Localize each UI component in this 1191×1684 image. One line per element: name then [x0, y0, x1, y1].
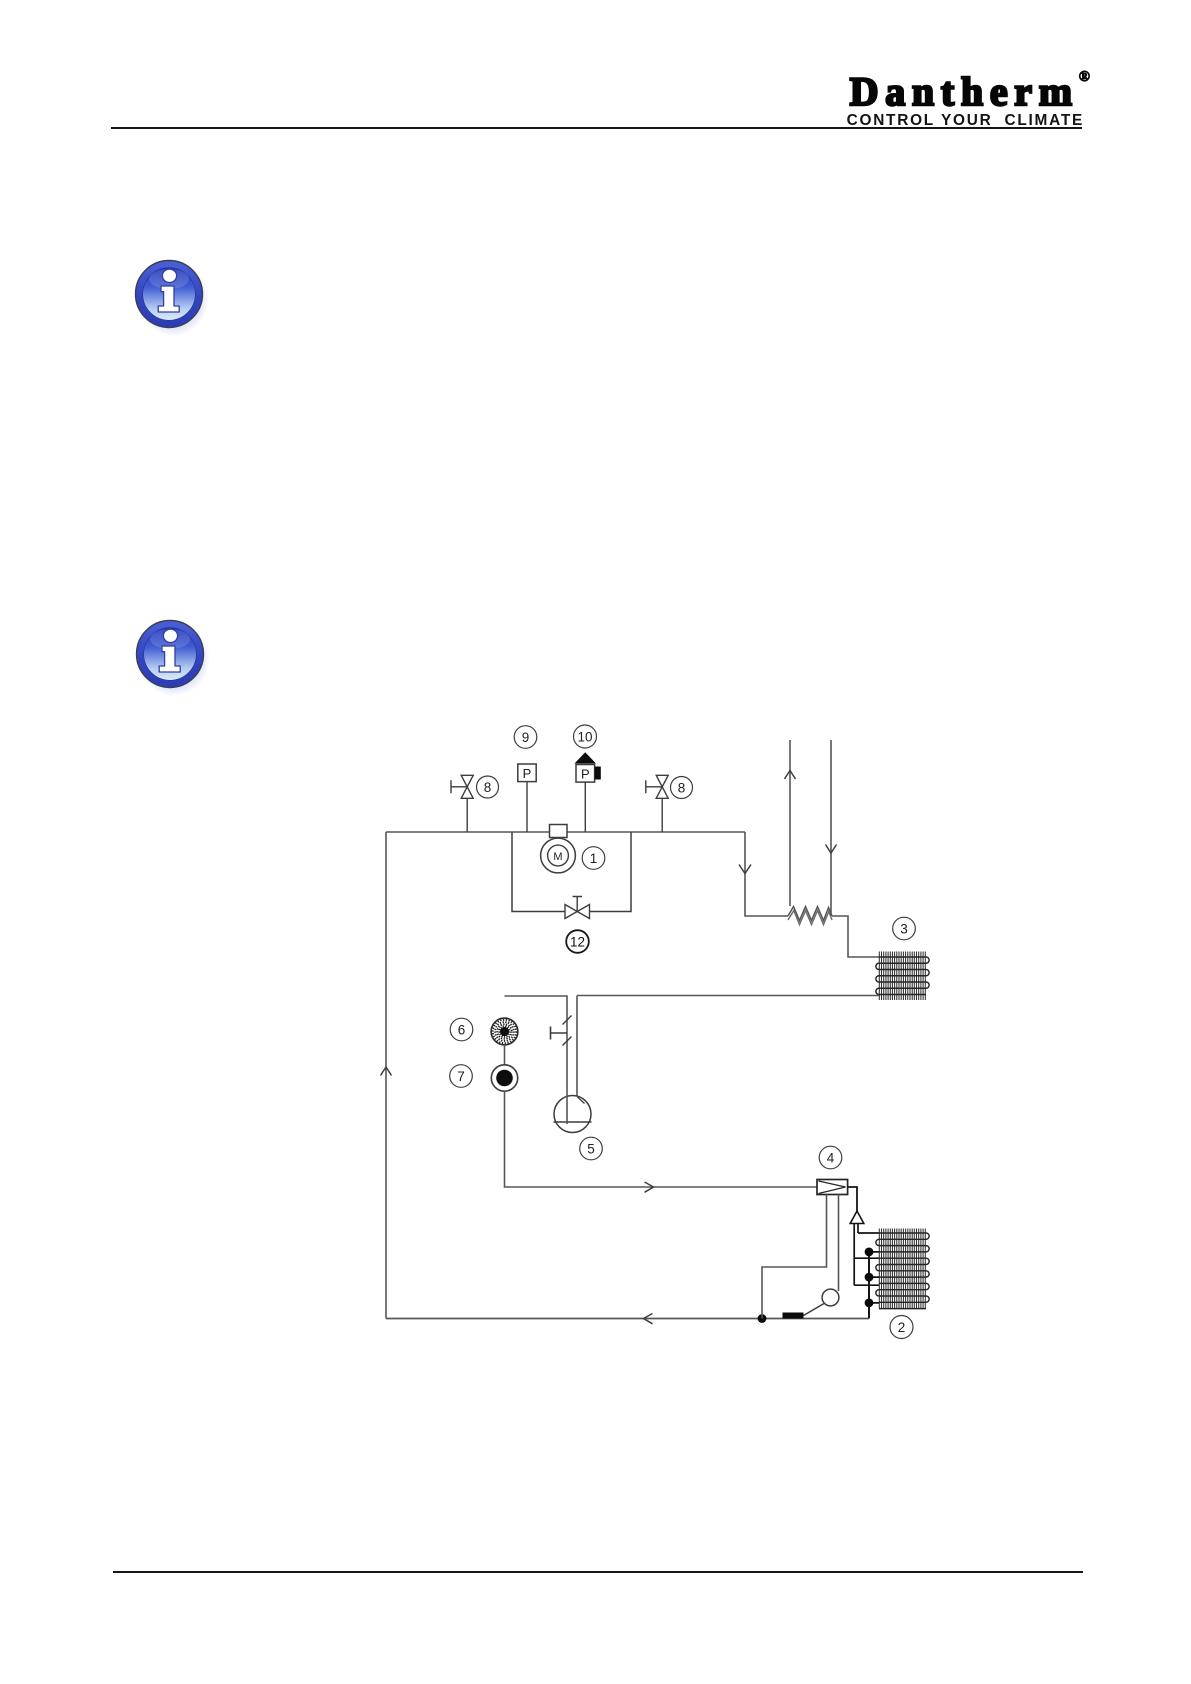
svg-text:9: 9: [522, 730, 530, 745]
label circle 1: [582, 847, 605, 870]
junction dot 2: [865, 1273, 874, 1282]
riser return line: [830, 740, 832, 915]
wire suction line bottom: [386, 1318, 869, 1320]
compressor body 1: [541, 838, 576, 873]
svg-text:10: 10: [577, 729, 592, 744]
sensing bulb: [822, 1289, 839, 1306]
svg-text:P: P: [581, 766, 590, 781]
wire left return riser: [385, 832, 387, 1319]
svg-text:5: 5: [587, 1141, 595, 1156]
wire receiver inlet: [576, 996, 578, 1097]
junction dot suction/equalizer: [758, 1314, 767, 1323]
label circle 8 left: [477, 776, 499, 798]
external equalizer line: [762, 1195, 827, 1319]
junction dot 1: [865, 1248, 874, 1257]
sensing bulb capillary: [838, 1195, 840, 1292]
distributor feeds to evaporator: [854, 1233, 879, 1285]
svg-text:4: 4: [827, 1150, 835, 1165]
svg-text:8: 8: [484, 780, 492, 795]
service valve on dip tube: [551, 1016, 572, 1046]
pressure gauge 9: [518, 764, 536, 832]
label circle 10: [574, 725, 597, 748]
svg-text:3: 3: [900, 921, 908, 936]
label circle 12: [566, 930, 589, 953]
service valve 8 left (bowtie): [451, 775, 473, 832]
flow arrow right on liquid line: [645, 1182, 654, 1192]
vibration absorber zigzag: [788, 907, 832, 921]
wire zigzag to condenser coil: [832, 916, 879, 957]
svg-text:1: 1: [590, 851, 598, 866]
label circle 6: [450, 1018, 473, 1041]
compressor terminal box: [550, 825, 568, 838]
bulb strap diagonal: [804, 1304, 825, 1316]
wire TXV outlet to distributor: [848, 1187, 857, 1212]
label circle 7: [450, 1065, 473, 1088]
info icon 1: [132, 251, 212, 339]
evaporator coil 2 tubes: [876, 1233, 929, 1309]
condenser coil 3 tubes: [876, 957, 929, 995]
filter drier 6: [491, 1018, 518, 1045]
receiver inlet tick: [578, 1097, 585, 1104]
label circle 5: [580, 1137, 603, 1160]
svg-text:7: 7: [457, 1069, 465, 1084]
svg-text:M: M: [553, 851, 562, 863]
label circle 2: [890, 1316, 913, 1339]
svg-text:8: 8: [678, 780, 686, 795]
riser supply line: [789, 740, 791, 906]
junction dot 3: [865, 1299, 874, 1308]
sight glass 7: [491, 1065, 517, 1091]
distributor feed tails: [854, 1224, 858, 1286]
distributor arrow (hollow): [850, 1211, 864, 1224]
bypass valve stem: [573, 897, 583, 912]
svg-text:6: 6: [458, 1022, 466, 1037]
flow arrow down on riser return: [826, 845, 837, 854]
evaporator coil 2 fins: [879, 1229, 925, 1309]
info icon 2: [133, 611, 213, 699]
suction header line: [868, 1252, 870, 1319]
condenser coil 3 fins: [879, 952, 925, 1001]
bulb clamp block: [783, 1313, 804, 1319]
bypass valve (bowtie): [565, 905, 590, 919]
suction header return stubs: [869, 1252, 879, 1303]
compressor enclosure box: [512, 832, 631, 912]
receiver vessel 5: [554, 1096, 592, 1133]
wire liquid line from condenser: [577, 995, 879, 997]
flow arrow down on discharge drop: [739, 865, 751, 874]
wire filter to sight glass: [504, 1045, 506, 1065]
pressure switch 10: [575, 752, 601, 832]
flow arrow up on left riser: [381, 1067, 392, 1076]
service valve 8 right (bowtie): [646, 775, 668, 832]
svg-text:12: 12: [570, 934, 585, 949]
wire discharge drop to heat exchanger: [745, 832, 788, 916]
label circle 3: [893, 917, 916, 940]
flow arrow left on suction line: [644, 1314, 653, 1324]
wire discharge line (compressor top header): [386, 831, 745, 833]
svg-text:2: 2: [898, 1320, 906, 1335]
thermostatic expansion valve 4: [817, 1180, 848, 1195]
wire liquid line to TXV: [505, 1091, 818, 1187]
label circle 9: [514, 726, 537, 749]
label circle 4: [819, 1146, 842, 1169]
flow arrow up on riser supply: [785, 771, 796, 780]
wire receiver dip tube / top header: [505, 996, 568, 1124]
label circle 8 right: [671, 777, 693, 799]
svg-text:P: P: [523, 766, 532, 781]
